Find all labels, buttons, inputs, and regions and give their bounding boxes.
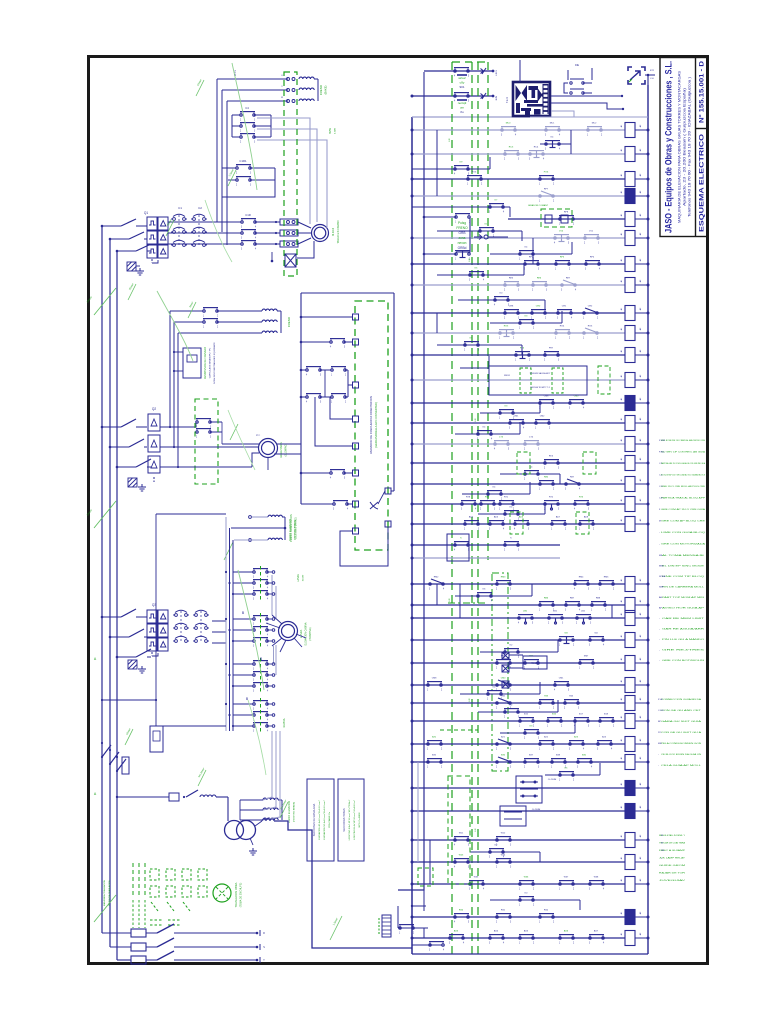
green dashed pair on rung 463 — [517, 452, 530, 474]
wire net d — [301, 396, 306, 398]
contact on rung RO at x500 — [499, 330, 515, 340]
contact on rung CMR at x536 — [535, 420, 551, 430]
contact on half rung y652 — [504, 649, 520, 659]
half rung riser y474 — [559, 474, 561, 484]
contact on rung TB at x565 — [564, 700, 580, 710]
svg-text:F.Rot: F.Rot — [659, 451, 664, 454]
contact on rung B3 at x428 — [427, 759, 443, 769]
relay coil R80 on rung y484 — [625, 477, 635, 492]
contact C4 b — [333, 501, 349, 511]
junction left rail y762 — [411, 761, 414, 764]
svg-text:Q1: Q1 — [144, 211, 148, 215]
junction right rail y811 — [647, 810, 650, 813]
contactor K4 — [193, 610, 209, 642]
svg-text:PART TOP MOM AP MIN: PART TOP MOM AP MIN — [662, 596, 705, 599]
relay box JL-200M lower — [500, 806, 526, 826]
freno elev wire a — [252, 516, 268, 518]
svg-text:CB: CB — [661, 850, 665, 852]
terminal dot top rung 2 — [492, 95, 495, 98]
svg-text:M: M — [659, 521, 661, 523]
svg-text:SBR: SBR — [659, 587, 664, 589]
coil wire to right rail y762 — [635, 761, 648, 763]
loop wire motor to contacts 2 — [257, 129, 317, 222]
speed row out B21 — [267, 674, 272, 676]
junction left rail y403 — [411, 402, 414, 405]
wire limit switch link — [378, 491, 385, 504]
motor M1 — [312, 225, 329, 242]
net wire to terminal 4 — [330, 397, 352, 419]
relay coil RSD on rung y917 — [625, 910, 635, 925]
junction right rail y285 — [647, 284, 650, 287]
wire rail to fuse 3 — [117, 959, 131, 961]
coil wire to right rail y484 — [635, 483, 648, 485]
svg-text:PIN LLE GU A MANDO: PIN LLE GU A MANDO — [662, 638, 705, 641]
junction left rail y154 — [411, 153, 414, 156]
half rung y207 — [412, 206, 510, 208]
half rung y434 — [455, 433, 520, 435]
brake coil G3 L1 — [263, 798, 278, 800]
bus contact group A — [231, 115, 233, 137]
junction right rail y355 — [647, 354, 650, 357]
speed row out B12 — [267, 640, 272, 642]
speed row wire B11 — [233, 629, 253, 631]
contact on half rung y345 — [464, 342, 480, 352]
contact on rung RMCU at x497 — [496, 581, 512, 591]
svg-text:u9y: u9y — [460, 81, 465, 85]
contact C5 pole 2 — [196, 429, 212, 439]
contact box DIE — [564, 68, 592, 94]
wire to terminal 2 — [344, 341, 352, 343]
node before brake solenoid — [271, 260, 274, 263]
variador terminal y317 — [353, 314, 359, 320]
contact on rung 545 at x505 — [504, 542, 520, 552]
ladder rung B1 — [412, 720, 625, 722]
limit switch to right terminal a — [370, 502, 378, 509]
wire stamp top feed — [519, 60, 521, 82]
coil wire to right rail y605 — [635, 604, 648, 606]
junction right rail y313 — [647, 312, 650, 315]
junction right rail y938 — [647, 937, 650, 940]
wire contact A1 out — [254, 114, 271, 116]
half rung riser y514 — [544, 502, 546, 514]
junction left rail y840 — [411, 839, 414, 842]
coil wire to right rail y524 — [635, 523, 648, 525]
relay coil RO on rung y333 — [625, 326, 635, 341]
freno elevacion coil 1 — [268, 515, 282, 517]
half rung y231 — [437, 230, 522, 232]
contact C4 pole 2 — [240, 123, 256, 133]
svg-text:MANIOBRA TRASLACION: MANIOBRA TRASLACION — [103, 880, 106, 907]
half rung riser y345 — [521, 345, 523, 355]
stamp wire a — [551, 95, 622, 97]
pulsador freno bracket — [424, 217, 470, 254]
relay coil CRE on rung y313 — [625, 306, 635, 321]
ladder rung W1 — [412, 839, 625, 841]
brake solenoid symbol — [285, 254, 296, 267]
contact on rung B2 at x540 — [539, 741, 555, 751]
svg-text:Pulsg: Pulsg — [458, 221, 466, 225]
wire to terminal 6 lead — [301, 472, 330, 474]
junction left rail y884 — [411, 883, 414, 886]
wire contact A3 lead — [232, 136, 240, 138]
rail gauge slash 2 — [94, 501, 116, 528]
svg-text:MC2: MC2 — [592, 123, 597, 125]
contact on rung W2 at x455 — [454, 859, 470, 869]
svg-text:F.VE: F.VE — [658, 699, 663, 701]
riser wire to brake row 1 — [216, 79, 218, 222]
svg-text:CON GE GU AND CET: CON GE GU AND CET — [661, 709, 702, 712]
long vertical wire left of ladder — [417, 762, 419, 862]
relay coil ASC on rung y938 — [625, 931, 635, 946]
coil wire to right rail y313 — [635, 312, 648, 314]
ladder rung RC8 — [412, 153, 625, 155]
wire rail to switch Q3 pole 3 — [117, 656, 136, 658]
relay box JL-200M upper — [516, 776, 542, 803]
svg-text:JUVEGUIAV: JUVEGUIAV — [659, 879, 686, 882]
svg-text:GIRADOR COMANT: GIRADOR COMANT — [528, 204, 549, 207]
contact on rung LBH at x549 — [548, 615, 564, 625]
relay coil REL1 on rung y788 — [625, 781, 635, 796]
svg-text:CM1: CM1 — [514, 416, 519, 418]
coil wire to right rail y663 — [635, 662, 648, 664]
terminal node at y101 — [287, 100, 290, 103]
contact on rung CMVL at x497 — [496, 680, 512, 692]
wire rail to switch Q2 pole 1 — [102, 426, 121, 428]
freno elev wire c — [234, 539, 268, 541]
junction left rail y584 — [411, 583, 414, 586]
contact on rung RO at x556 — [555, 330, 571, 340]
green dashed enclosure hoist — [284, 72, 297, 276]
junction left rail y703 — [411, 702, 414, 705]
speed row wire B22 — [233, 685, 253, 687]
junction right rail y584 — [647, 583, 650, 586]
freehand green curve group1 — [232, 63, 257, 190]
secondary inductor — [262, 819, 274, 821]
green dashed column 3 — [471, 62, 473, 955]
speed row wire LENTA0 — [233, 571, 253, 573]
svg-text:RM3: RM3 — [501, 577, 506, 579]
ladder rung CMR — [412, 422, 625, 424]
junction right rail y862 — [647, 861, 650, 864]
wire switch to breaker pole 2 — [144, 238, 147, 240]
transformer primary winding — [225, 821, 244, 840]
riser G2 a — [169, 311, 171, 427]
svg-text:L1-C1: L1-C1 — [235, 69, 237, 76]
x-terminal a — [502, 652, 509, 659]
contactor K3 — [173, 610, 189, 642]
coil wire to right rail y219 — [635, 218, 648, 220]
junction left rail y640 — [411, 639, 414, 642]
wire switch to breaker pole 3 — [147, 250, 151, 252]
junction right rail y618 — [647, 617, 650, 620]
contact on half rung y694 — [487, 691, 503, 701]
ladder rung PO — [412, 178, 625, 180]
contact on rung ASC at x490 — [489, 935, 505, 945]
wire Q2 out 1 — [160, 426, 196, 428]
wire net f — [345, 396, 348, 398]
wire switch 1 out — [174, 932, 256, 934]
coil wire to right rail y130 — [635, 129, 648, 131]
brake coil G2 L1 — [262, 309, 277, 311]
coil wire to right rail y685 — [635, 684, 648, 686]
svg-text:R: R — [263, 932, 265, 935]
contact on half rung y323 — [519, 320, 535, 330]
terminal tick bottom 2 — [259, 944, 261, 950]
svg-text:DIE: DIE — [575, 64, 579, 67]
svg-text:L2M1: L2M1 — [496, 69, 498, 75]
motor M3 elevation — [279, 622, 298, 641]
svg-text:RM5: RM5 — [604, 577, 609, 579]
gauge slash G2a — [128, 284, 136, 300]
rail gauge slash 1 — [94, 288, 116, 315]
speed contact LENTA2 — [253, 591, 269, 601]
sub rail b — [436, 313, 438, 333]
ladder rung RO — [412, 332, 625, 334]
svg-text:CM2: CM2 — [540, 416, 545, 418]
svg-text:JASO - Equipos de Obras y Cons: JASO - Equipos de Obras y Construcciones… — [664, 61, 674, 233]
coil wire to right rail y403 — [635, 402, 648, 404]
svg-text:W35: W35 — [474, 877, 479, 879]
svg-text:M.RC4: M.RC4 — [331, 227, 335, 236]
bus y117 to right rail — [530, 116, 648, 118]
second rail L0 — [398, 117, 424, 890]
resistor block frame G2 — [183, 348, 201, 378]
svg-text:RAPIDA: RAPIDA — [283, 718, 286, 727]
junction right rail y685 — [647, 684, 650, 687]
half rung y144 — [540, 143, 571, 145]
contact top rung 1 — [454, 68, 470, 78]
coil wire to right rail y380 — [635, 379, 648, 381]
contact on half rung y231 — [479, 228, 495, 238]
green dashed motor cross — [216, 887, 228, 899]
green dashed comp on rung 219 — [541, 209, 572, 227]
junction RFE — [155, 699, 157, 701]
freno elev junction — [284, 527, 287, 530]
contact on half rung y596 — [477, 593, 493, 603]
svg-text:CR8: CR8 — [509, 306, 514, 308]
svg-text:W.131: W.131 — [531, 661, 539, 665]
contact on half rung y207 — [489, 204, 505, 214]
fuse T1 — [169, 793, 179, 801]
junction right rail y640 — [647, 639, 650, 642]
aux box RFE inner — [153, 731, 160, 741]
transformer earth — [249, 848, 257, 855]
contact on half rung y413 — [499, 410, 515, 420]
speed bus G3 c — [232, 540, 234, 731]
relay coil B3 on rung y762 — [625, 755, 635, 770]
wire to motor M2 center — [160, 446, 258, 448]
relay coil W3 on rung y884 — [625, 877, 635, 892]
svg-text:F.V.E1: F.V.E1 — [659, 440, 666, 442]
svg-text:C1R1: C1R1 — [239, 159, 247, 163]
wire net a — [301, 369, 306, 371]
inline switch blade rail 1 — [102, 745, 111, 757]
x-terminal c — [502, 681, 509, 688]
sub rail d — [459, 584, 461, 618]
contact on half rung y434 — [477, 431, 493, 441]
svg-text:CAR RE MEM LIMIT: CAR RE MEM LIMIT — [662, 617, 705, 620]
ladder rung MC1 — [412, 129, 625, 131]
contact C40 — [306, 367, 322, 377]
wire to terminal 2 lead — [301, 341, 330, 343]
svg-text:W38: W38 — [594, 877, 599, 879]
svg-text:CM0: CM0 — [501, 678, 506, 680]
ladder rung TB — [412, 702, 625, 704]
svg-text:PO6: PO6 — [544, 172, 549, 174]
svg-text:CR0: CR0 — [536, 306, 541, 308]
half rung y474 — [500, 473, 560, 475]
w131 wires — [509, 655, 557, 668]
freno elev node b — [249, 539, 252, 542]
junction right rail y219 — [647, 218, 650, 221]
contact on rung B3 at x525 — [524, 759, 540, 769]
brake coil bend a — [263, 797, 272, 800]
green dashed pair right of sub box — [598, 366, 610, 394]
half rung riser y254 — [571, 242, 573, 254]
earth hatch box Q1 — [127, 262, 136, 271]
sub rail g — [429, 840, 431, 884]
speed contact LENTA0 — [253, 569, 269, 579]
bottom loop wire G3 — [163, 725, 226, 727]
variador terminal y342 — [353, 339, 359, 345]
wire fuse 3 to switch — [146, 959, 157, 961]
wire C5 out 2 — [210, 431, 222, 433]
svg-text:POTENCIA TRASLACION: POTENCIA TRASLACION — [108, 880, 111, 906]
coil wire to right rail y179 — [635, 178, 648, 180]
border frame — [89, 57, 708, 964]
relay coil MC1 on rung y130 — [625, 123, 635, 138]
switch blade Q3 pole 3 — [136, 649, 151, 657]
junction left rail y938 — [411, 937, 414, 940]
coil wire to right rail y463 — [635, 462, 648, 464]
svg-text:GARA GU SUIT GUIA: GARA GU SUIT GUIA — [661, 720, 702, 723]
contact on rung B1 at x575 — [574, 718, 590, 728]
relay coil RVT on rung y463 — [625, 456, 635, 471]
speed row out LENTA2 — [267, 593, 272, 595]
svg-text:CM1: CM1 — [559, 678, 564, 680]
ladder bottom sub wires — [412, 886, 448, 938]
motor M2 pigtail — [267, 458, 269, 470]
svg-text:C1: C1 — [178, 206, 182, 210]
svg-text:BMW: BMW — [329, 127, 332, 134]
relay coil RF on rung y196 — [625, 189, 635, 204]
speed contact RAPIDA1 — [253, 712, 269, 722]
contactor K2 — [191, 214, 207, 246]
svg-text:PELA CONDIGIONDEN GON: PELA CONDIGIONDEN GON — [661, 742, 702, 745]
svg-text:CM0: CM0 — [574, 396, 579, 398]
contact on rung W3 at x520 — [519, 881, 535, 891]
svg-text:VARIADOR DE FRECUENCIA ORIENTA: VARIADOR DE FRECUENCIA ORIENTACION — [369, 396, 373, 454]
terminal strip bottom left — [379, 915, 391, 937]
svg-text:FRENO: FRENO — [456, 226, 468, 230]
junction right rail y130 — [647, 129, 650, 132]
svg-text:RO5: RO5 — [588, 326, 593, 328]
relay coil RBOT on rung y605 — [625, 598, 635, 613]
ladder rung CVR — [412, 237, 625, 239]
contact on half rung y254 — [519, 251, 535, 261]
contact on rung RC8 at x505 — [504, 151, 520, 161]
contact on rung RT at x575 — [574, 501, 590, 511]
speed out circle B20 — [272, 663, 275, 666]
svg-text:CR1: CR1 — [562, 306, 567, 308]
cable spec box 2 — [338, 779, 364, 861]
svg-text:zona: zona — [459, 236, 466, 240]
brake coil G3 L2 — [263, 808, 278, 810]
relay coil RFO on rung y219 — [625, 212, 635, 227]
junction left rail y663 — [411, 662, 414, 665]
wire to transformer — [216, 796, 228, 798]
contact C1R pole 1 — [236, 165, 252, 175]
contact on rung CRE at x532 — [531, 310, 547, 320]
junction left rail y618 — [411, 617, 414, 620]
contact on rung RSD at x497 — [496, 914, 512, 924]
svg-text:CM8: CM8 — [432, 678, 437, 680]
contact on rung RES at x505 — [504, 282, 520, 292]
contact on rung W1 at x497 — [496, 837, 512, 847]
switch blade Q3 pole 1 — [121, 609, 136, 617]
junction left rail y238 — [411, 237, 414, 240]
contact on rung ASC at x560 — [559, 935, 575, 945]
variador terminal y385 — [353, 382, 359, 388]
svg-text:TANGO E/N CAMBIO: TANGO E/N CAMBIO — [337, 220, 340, 243]
wire net c — [345, 369, 348, 371]
svg-text:CAPSULA DE BRAKE/PUT PC: CAPSULA DE BRAKE/PUT PC — [209, 347, 212, 378]
svg-text:GRB: GRB — [459, 231, 466, 235]
svg-text:JL-200M: JL-200M — [548, 779, 557, 781]
junction left rail y196 — [411, 195, 414, 198]
svg-text:wrtu2: wrtu2 — [458, 76, 466, 80]
contact C1R pole 2 — [241, 230, 257, 240]
speed row wire RAPIDA1 — [233, 714, 253, 716]
ground Q1 — [136, 268, 144, 275]
contact on rung RT at x545 — [544, 501, 560, 511]
svg-text:SM7: SM7 — [584, 656, 589, 658]
svg-text:RESISTENCIA DE FRENADO: RESISTENCIA DE FRENADO — [204, 347, 207, 379]
svg-text:GRE REJ/TRES: GRE REJ/TRES — [662, 650, 705, 652]
crane logo arrow — [630, 71, 640, 80]
contact C5 pole 1 — [196, 419, 212, 429]
contact on half rung y900 — [519, 897, 535, 907]
relay coil RMCU on rung y584 — [625, 577, 635, 592]
wire to resistor R2 — [255, 232, 280, 234]
ladder rung RSD — [412, 916, 625, 918]
svg-text:T.E.D: T.E.D — [506, 97, 509, 103]
contact on rung MC1 at x546 — [545, 127, 561, 137]
speed contact B20 — [253, 661, 269, 671]
gauge slash G3 top — [224, 542, 233, 560]
contact on rung SMV at x580 — [579, 660, 595, 670]
coil wire to right rail y444 — [635, 443, 648, 445]
switch blade Q2 pole 2 — [129, 439, 144, 447]
phase rail L1 — [101, 226, 103, 933]
motor M2 — [259, 439, 278, 458]
freno elev node a — [249, 516, 252, 519]
ladder rung FREL — [412, 379, 625, 381]
terminal node b at y244 — [292, 243, 295, 246]
net join mid — [324, 370, 326, 397]
ladder left rail — [411, 117, 413, 954]
speed row out RAPIDA0 — [267, 703, 272, 705]
wire transformer to earth — [250, 838, 253, 845]
wire rail to switch Q3 pole 2 — [110, 636, 129, 638]
junction left rail y179 — [411, 178, 414, 181]
wire Q2 out 2 — [160, 446, 196, 448]
svg-text:TRASLACION OBRA: TRASLACION OBRA — [234, 882, 238, 907]
svg-text:C2: C2 — [198, 206, 202, 210]
contact on rung RBOT at x566 — [565, 602, 581, 612]
wire G2 coil row 2 — [174, 321, 203, 323]
wire into resistor block — [174, 351, 183, 353]
